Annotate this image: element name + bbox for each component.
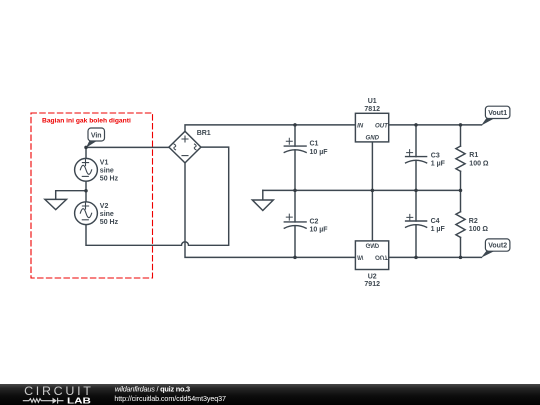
junction node U1/U2 GND: [371, 189, 375, 193]
wire node A to V2 + terminal: [85, 191, 87, 202]
wire BR1 minus terminal to U2 IN (bottom rail left): [185, 163, 355, 258]
svg-text:100 Ω: 100 Ω: [469, 226, 489, 233]
capacitor C2: [284, 214, 306, 228]
svg-text:GND: GND: [366, 135, 380, 142]
wire Vin node to BR1 left terminal: [86, 146, 169, 148]
net flag Vout1: [481, 106, 510, 125]
svg-text:7912: 7912: [364, 281, 380, 288]
wire BR1 top terminal to U1 IN (top rail): [185, 125, 355, 131]
svg-text:50 Hz: 50 Hz: [100, 219, 119, 226]
svg-text:Vout2: Vout2: [488, 243, 507, 250]
wire U1 GND to ground rail to U2 GND: [371, 142, 373, 241]
junction node C3 top: [414, 123, 418, 127]
wire ground rail to C4: [415, 190, 417, 221]
ground (middle, ground rail): [252, 190, 273, 210]
voltage source V1: [75, 158, 98, 181]
voltage regulator U1: [355, 113, 388, 142]
svg-text:BR1: BR1: [197, 130, 211, 137]
svg-text:100 Ω: 100 Ω: [469, 160, 489, 167]
wire top rail to R1: [460, 125, 462, 146]
wire V1 - terminal to node A: [85, 181, 87, 191]
voltage source V2: [75, 202, 98, 225]
svg-text:Vout1: Vout1: [488, 110, 507, 117]
svg-text:C2: C2: [310, 218, 319, 225]
junction node C1 top: [293, 123, 297, 127]
svg-text:10 µF: 10 µF: [310, 149, 329, 156]
wire top rail to C3: [415, 125, 417, 157]
junction node R2 bottom: [459, 256, 463, 260]
wire C3 to ground rail: [415, 160, 417, 190]
net flag Vin: [86, 128, 105, 148]
svg-text:1 µF: 1 µF: [431, 226, 446, 233]
wire U1 OUT to Vout1 tail: [389, 124, 482, 126]
wire R2 to bottom rail: [460, 237, 462, 257]
svg-text:R2: R2: [469, 218, 478, 225]
svg-text:http://circuitlab.com/cdd54mt3: http://circuitlab.com/cdd54mt3yeq37: [114, 394, 226, 403]
wire ground rail to C2: [294, 190, 296, 222]
capacitor C1: [284, 138, 306, 152]
svg-text:7812: 7812: [364, 106, 380, 113]
svg-text:IN: IN: [357, 123, 364, 130]
junction node A (V1/V2/ground): [84, 189, 88, 193]
svg-text:wildanfirdaus / quiz no.3: wildanfirdaus / quiz no.3: [115, 384, 190, 393]
wire ground rail to R2: [460, 190, 462, 211]
wire U2 OUT to Vout2 tail: [389, 256, 482, 258]
svg-text:C1: C1: [310, 140, 319, 147]
junction node R1/R2 ground rail: [459, 189, 463, 193]
svg-text:IN: IN: [357, 253, 364, 260]
svg-text:U1: U1: [368, 98, 377, 105]
capacitor C3: [406, 150, 427, 163]
svg-text:V2: V2: [100, 203, 109, 210]
svg-text:LAB: LAB: [67, 397, 91, 405]
wire Vin node to V1 + terminal: [85, 147, 87, 158]
wire C4 to bottom rail: [415, 225, 417, 258]
wire C1 to ground rail: [294, 150, 296, 191]
CircuitLab logo resistor-diode glyph: [23, 398, 64, 404]
svg-text:R1: R1: [469, 152, 478, 159]
svg-text:C4: C4: [431, 218, 440, 225]
svg-text:OUT: OUT: [375, 253, 389, 260]
svg-text:Bagian ini gak boleh diganti: Bagian ini gak boleh diganti: [42, 117, 131, 124]
net flag Vout2: [481, 239, 510, 258]
resistor R1: [456, 146, 465, 171]
capacitor C4: [406, 214, 427, 227]
junction node C4 bottom: [414, 256, 418, 260]
wire top rail to C1: [294, 125, 296, 146]
junction node C2 bottom: [293, 256, 297, 260]
junction node C1/C2 ground rail: [293, 189, 297, 193]
ground (inside red box): [45, 199, 67, 209]
svg-text:Vin: Vin: [91, 132, 102, 139]
junction node R1 top: [459, 123, 463, 127]
svg-text:GND: GND: [366, 241, 380, 248]
junction node C3/C4 ground rail: [414, 189, 418, 193]
annotation box (red dashed "do not change" region): [31, 113, 153, 278]
svg-text:1 µF: 1 µF: [431, 160, 446, 167]
svg-text:50 Hz: 50 Hz: [100, 176, 119, 183]
svg-text:sine: sine: [100, 168, 114, 175]
ground rail: [263, 189, 461, 191]
svg-text:V1: V1: [100, 160, 109, 167]
wire V2 - terminal to BR1 right terminal (with hop over bridge minus wire): [86, 147, 229, 245]
junction node at Vin: [84, 146, 88, 150]
wire C2 to bottom rail: [294, 226, 296, 258]
wire node A to ground 1: [56, 191, 86, 200]
svg-text:C3: C3: [431, 152, 440, 159]
svg-text:10 µF: 10 µF: [310, 226, 329, 233]
svg-text:OUT: OUT: [375, 123, 389, 130]
voltage regulator U2 (flipped vertically): [355, 241, 388, 270]
wire R1 to ground rail: [460, 171, 462, 190]
bridge rectifier BR1: [169, 131, 201, 163]
resistor R2: [456, 212, 465, 238]
svg-text:sine: sine: [100, 211, 114, 218]
svg-text:U2: U2: [368, 273, 377, 280]
